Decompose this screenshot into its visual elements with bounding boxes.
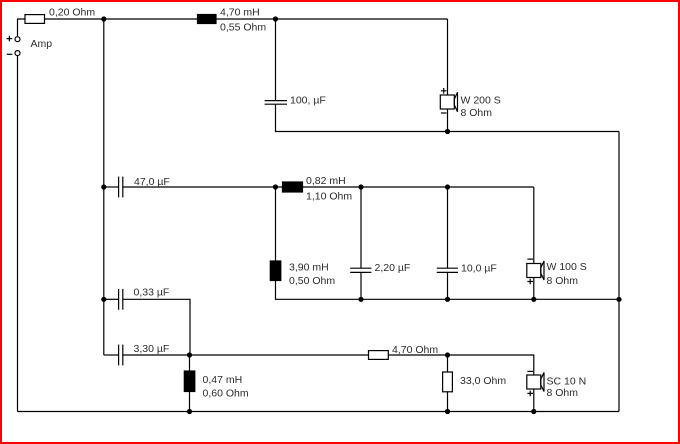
svg-text:SC 10 N: SC 10 N	[547, 375, 587, 387]
junction: top rail / left branch rail	[101, 16, 106, 21]
inductor L3 3,90 mH	[270, 261, 281, 281]
svg-text:3,30 µF: 3,30 µF	[134, 343, 170, 355]
svg-text:4,70 Ohm: 4,70 Ohm	[392, 344, 438, 356]
wire: C1 to bus1 corner	[276, 104, 620, 131]
wire: 2,20uF branch upper	[360, 187, 362, 268]
capacitor C4 10,0 uF	[437, 268, 458, 272]
svg-text:47,0 µF: 47,0 µF	[134, 176, 170, 188]
resistor R1 0,20 Ohm (top series)	[25, 15, 45, 24]
junction: branch rail / 0,33uF	[101, 297, 106, 302]
wire: mid row from L2 to W100S drop	[303, 186, 534, 188]
junction: bus1 / W200S	[445, 129, 450, 134]
junction: bus3 / SC10N	[531, 409, 536, 414]
speaker U1 W 200 S	[440, 88, 457, 113]
wire: SC10N to bus3	[533, 389, 535, 412]
junction: bus2 / 10,0uF	[445, 297, 450, 302]
svg-text:8 Ohm: 8 Ohm	[547, 387, 579, 399]
wire: into C5	[104, 298, 119, 300]
wire: top rail from R1 to W200S drop	[45, 18, 448, 20]
wire: C4 to bus2	[447, 272, 449, 299]
svg-text:0,20 Ohm: 0,20 Ohm	[49, 7, 95, 19]
svg-text:1,10 Ohm: 1,10 Ohm	[306, 191, 352, 203]
inductor L2 0,82 mH	[283, 182, 303, 192]
wire: C3 to bus2	[360, 272, 362, 299]
junction: mid row / 2,20uF	[358, 184, 363, 189]
wire: 10,0uF branch upper	[447, 187, 449, 268]
speaker U3 SC 10 N	[527, 371, 544, 396]
wire: bottom bus	[18, 411, 620, 413]
svg-text:2,20 µF: 2,20 µF	[375, 262, 411, 274]
capacitor C2 47,0 uF	[119, 177, 123, 198]
capacitor C1 100 uF	[265, 101, 287, 105]
svg-text:3,90 mH: 3,90 mH	[289, 262, 329, 274]
wire: 0,47mH branch upper	[189, 355, 191, 371]
wire: left branch rail	[103, 19, 105, 355]
junction: bus3 / R3	[445, 409, 450, 414]
wire: W100S drop	[533, 187, 535, 264]
speaker U2 W 100 S	[527, 259, 544, 284]
capacitor C1 100 uF drop wire upper	[275, 19, 277, 100]
wire: L4 to bus3	[189, 392, 191, 412]
amp plus sign	[7, 36, 13, 42]
capacitor C6 3,30 uF	[119, 345, 123, 366]
svg-text:0,50 Ohm: 0,50 Ohm	[289, 275, 335, 287]
svg-text:33,0 Ohm: 33,0 Ohm	[460, 375, 506, 387]
svg-text:0,55 Ohm: 0,55 Ohm	[220, 22, 266, 34]
wire: R2 to SC10N drop	[388, 355, 534, 375]
wire: right rail	[618, 132, 620, 412]
capacitor C3 2,20 uF	[350, 268, 371, 272]
svg-text:0,47 mH: 0,47 mH	[203, 374, 243, 386]
junction: top rail / 100uF branch	[273, 16, 278, 21]
junction: bottom row / 33 Ohm	[445, 352, 450, 357]
wire: amp plus terminal up to top rail	[18, 19, 26, 36]
wire: R3 to bus3	[447, 392, 449, 412]
wire: W200S to bus1	[447, 109, 449, 132]
svg-text:0,33 µF: 0,33 µF	[134, 287, 170, 299]
svg-text:0,82 mH: 0,82 mH	[306, 175, 346, 187]
inductor L4 0,47 mH	[184, 371, 195, 392]
svg-text:W 100 S: W 100 S	[547, 261, 587, 273]
junction: bus2 / right rail	[616, 297, 621, 302]
wire: L3 to bus2 corner	[276, 281, 620, 300]
junction: branch rail / 47uF	[101, 184, 106, 189]
wire: C2 to L2	[123, 186, 283, 188]
junction: bus3 / L4	[187, 409, 192, 414]
svg-text:Amp: Amp	[31, 38, 53, 50]
svg-text:8 Ohm: 8 Ohm	[547, 275, 579, 287]
terminal: amp minus	[15, 51, 20, 56]
wire: 3,90mH branch upper	[275, 187, 277, 261]
resistor R3 33,0 Ohm	[443, 372, 453, 392]
junction: mid row / 10,0uF	[445, 184, 450, 189]
wire: W200S drop from top rail	[447, 19, 449, 95]
capacitor C5 0,33 uF	[119, 289, 123, 310]
resistor R2 4,70 Ohm	[369, 351, 389, 360]
svg-text:100, µF: 100, µF	[290, 95, 326, 107]
wire: C6 to R2	[123, 354, 369, 356]
svg-text:10,0 µF: 10,0 µF	[461, 263, 497, 275]
wire: 33 Ohm branch upper	[447, 355, 449, 372]
junction: bus2 / W100S	[531, 297, 536, 302]
svg-text:W 200 S: W 200 S	[461, 94, 501, 106]
wire: C5 over to tweeter node	[123, 299, 190, 355]
junction: mid row / 3,90mH branch	[273, 184, 278, 189]
wire: into C6	[104, 354, 119, 356]
svg-text:0,60 Ohm: 0,60 Ohm	[203, 388, 249, 400]
junction: tweeter node	[187, 352, 192, 357]
wire: into C2	[104, 186, 119, 188]
svg-text:8 Ohm: 8 Ohm	[461, 107, 493, 119]
junction: bus2 / 2,20uF	[358, 297, 363, 302]
wire: left rail from amp minus	[17, 56, 19, 412]
amp minus sign	[7, 53, 13, 55]
terminal: amp plus	[15, 37, 20, 42]
inductor L1 4,70 mH	[198, 15, 217, 24]
svg-text:4,70 mH: 4,70 mH	[220, 7, 260, 19]
wire: W100S to bus2	[533, 278, 535, 300]
